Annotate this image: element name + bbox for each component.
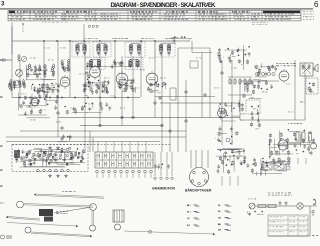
value label 26: [30, 119, 36, 122]
left margin mark 1: [0, 203, 5, 204]
value label 10: [118, 63, 124, 66]
title rule: [0, 8, 313, 10]
wire v21: [231, 60, 233, 145]
output transformer parts: [215, 126, 238, 144]
fuse F1: [258, 204, 266, 207]
junction J: [154, 102, 157, 105]
value label 1: [30, 57, 36, 60]
margin tick 1: [0, 59, 3, 61]
bus af: [160, 102, 240, 104]
if3 coupling parts: [81, 102, 111, 113]
ground lug 3: [48, 174, 52, 177]
bus agc: [192, 52, 212, 54]
tube V4 EM84: [218, 107, 227, 120]
trimmer C1: [21, 56, 26, 61]
junction B: [121, 116, 124, 119]
corner mark: [312, 235, 318, 236]
rectifier stubs: [290, 158, 306, 164]
if stage 1 parts: [82, 79, 109, 96]
IF can T1: [72, 42, 90, 57]
cord vertical: [92, 210, 93, 225]
tube V2 EF89: [116, 71, 128, 87]
legend column 1: [187, 205, 200, 227]
value label 38: [8, 85, 12, 88]
value label 36: [300, 101, 306, 104]
pulley P4: [90, 225, 96, 231]
wire output bottom: [240, 119, 305, 121]
rectifier parts: [269, 129, 316, 159]
value label 13: [149, 57, 155, 60]
pulley P2: [90, 204, 97, 211]
switch dark block: [14, 150, 20, 158]
band filter: [61, 59, 70, 73]
ratio detector ring: [226, 138, 230, 142]
junction I: [61, 127, 64, 130]
pulley P5: [115, 224, 121, 230]
din pins: [193, 171, 196, 174]
volume pot box: [170, 88, 176, 100]
value label 7: [79, 73, 84, 76]
detector chain parts: [255, 63, 278, 77]
junction L: [43, 84, 46, 87]
label above can T4: [141, 37, 154, 40]
value label 18: [244, 83, 250, 86]
label above can T3: [112, 37, 128, 40]
wire v7: [99, 44, 101, 126]
avc network: [218, 45, 251, 70]
value label 15: [196, 57, 202, 60]
bus tone 3: [6, 141, 160, 143]
IF can T4: [155, 42, 175, 57]
value label 21: [286, 83, 292, 86]
junction G: [221, 72, 224, 75]
switch dark bits: [26, 153, 28, 156]
table header dark cell NORMALT: [263, 11, 300, 13]
keyboard switch cells: [95, 152, 153, 168]
mains chain wire: [255, 205, 296, 207]
value label 14: [160, 77, 166, 80]
value label 37: [16, 69, 22, 72]
value label 27: [56, 121, 62, 124]
fuse table text: [270, 216, 306, 232]
svg-text:BÅNDOPTAGER: BÅNDOPTAGER: [185, 188, 212, 193]
cord run 3: [7, 223, 78, 228]
bus tone 1: [20, 130, 186, 132]
junction A: [99, 124, 102, 127]
value label 30: [134, 87, 140, 90]
switch feed wires: [90, 131, 93, 152]
bus anode junction dots: [19, 97, 21, 99]
tape network: [216, 148, 249, 174]
value label 4: [52, 83, 58, 86]
wire v22: [239, 81, 241, 120]
din socket: [190, 168, 209, 187]
wire v5: [69, 41, 71, 97]
value label 3: [36, 77, 42, 80]
left margin mark 2: [1, 235, 13, 239]
wire v14: [169, 103, 171, 152]
margin tick 4: [0, 169, 3, 171]
pulley P3: [25, 227, 31, 233]
grammofon pins: [154, 152, 156, 176]
wire v12: [154, 41, 156, 118]
aerial symbol: [311, 211, 315, 217]
IF can T2: [93, 42, 111, 57]
tube V5 EL84: [279, 69, 289, 83]
table header text 5: [198, 11, 218, 13]
bus top: [12, 40, 190, 42]
value label 12: [140, 69, 145, 72]
value label 6: [64, 69, 70, 72]
mains labels: [268, 193, 292, 196]
detector parts: [147, 81, 166, 93]
negative feedback parts: [308, 82, 315, 93]
drive drum: [39, 209, 53, 222]
table header text 1: [17, 11, 57, 13]
IF can T6: [125, 58, 143, 70]
oscillator coils: [8, 79, 25, 91]
if frequency label: [167, 36, 189, 43]
mains plug: [313, 199, 316, 205]
bus if label row: [165, 38, 192, 40]
fuse F2: [268, 204, 276, 207]
ground lug 5: [64, 174, 68, 177]
wire v3: [43, 41, 45, 97]
speaker: [314, 64, 319, 72]
margin note 3: [303, 15, 314, 18]
pointer rod: [34, 194, 104, 199]
keyboard contacts: [97, 154, 150, 167]
junction E: [185, 120, 188, 123]
terminal strip left: [37, 169, 40, 172]
value label 35: [288, 111, 294, 114]
wire can1 feed: [83, 24, 85, 42]
tone network: [58, 134, 72, 142]
value label 31: [110, 95, 114, 98]
drum label: [56, 211, 68, 214]
bus anode left: [12, 97, 140, 99]
value label 11: [128, 79, 132, 82]
tuning drum: [113, 210, 124, 222]
keyboard switch frame: [95, 152, 153, 168]
cap C95: [279, 201, 282, 206]
inter-can parts: [111, 59, 124, 69]
junction F: [204, 94, 207, 97]
value label 25: [120, 107, 125, 110]
value label 19: [256, 73, 261, 76]
mains bottom wire: [268, 235, 310, 237]
junction N: [159, 97, 162, 100]
value label 16: [214, 87, 219, 90]
pulley P1: [17, 201, 24, 208]
coil L1: [18, 54, 20, 62]
agc box: [190, 61, 198, 68]
bus loop top: [178, 47, 210, 49]
cord run 1: [24, 204, 93, 208]
output transformer: [300, 63, 313, 76]
value label 29: [86, 67, 92, 70]
value label 24: [88, 103, 94, 106]
value label 40: [60, 47, 66, 50]
value label 28: [98, 87, 102, 90]
value label 17: [231, 67, 237, 70]
voltage selector inner: [250, 204, 254, 208]
wire v9: [121, 56, 123, 126]
wire v15: [177, 48, 179, 152]
if2 grid parts: [85, 62, 91, 87]
wire v10: [132, 56, 134, 118]
table header blob 1: [9, 11, 15, 13]
if link wire: [86, 66, 130, 68]
voltage table grid: [8, 10, 301, 21]
wire v11: [140, 41, 142, 97]
pointer label: [62, 190, 76, 193]
tube V7 triode: [31, 96, 39, 108]
speaker terminals: [262, 163, 284, 170]
wire v19: [209, 48, 211, 118]
mixer parts: [31, 83, 60, 95]
chassis dashed line: [12, 144, 170, 146]
dial pointer arrow: [22, 23, 24, 33]
wire v17: [191, 41, 193, 53]
value label 32: [152, 91, 158, 94]
dial lamps: [297, 203, 303, 209]
wire from table: [11, 23, 13, 55]
keyboard terminals: [96, 170, 99, 173]
margin tick 5: [0, 185, 3, 187]
cord run 2: [6, 216, 40, 220]
wave switch box: [12, 145, 88, 172]
keyboard stubs: [96, 173, 98, 178]
wire v18: [201, 53, 203, 118]
table row 1 values: [10, 14, 294, 15]
speaker box: [306, 78, 318, 94]
value label 2: [48, 59, 54, 62]
tube V6 EZ80: [278, 138, 288, 152]
IF can T3: [125, 42, 145, 57]
output grid parts: [243, 80, 273, 99]
selector marks: [248, 198, 256, 201]
wire v4: [57, 41, 59, 137]
svg-text:6: 6: [314, 0, 319, 9]
bus tone 2: [6, 136, 186, 138]
junction K: [169, 130, 172, 133]
table note right: [252, 22, 268, 25]
table row 2 values: [11, 16, 290, 17]
table header text 2: [66, 11, 92, 13]
af chain wires: [228, 77, 279, 95]
margin tick 2: [0, 96, 3, 98]
if stage 2 parts: [118, 78, 135, 93]
wire v8: [114, 41, 116, 97]
grammofon pin parts: [154, 163, 170, 169]
wire v20: [221, 60, 223, 145]
legend column 2: [218, 205, 231, 231]
value label 39: [44, 47, 50, 50]
margin note 1: [303, 10, 314, 13]
wire v16: [185, 80, 187, 152]
rf input network: [26, 63, 56, 80]
tube V3 EABC80: [146, 71, 158, 87]
rectifier labels: [288, 123, 302, 124]
tape stubs: [222, 176, 238, 186]
label above can T1: [84, 37, 98, 40]
af resistor chain: [229, 78, 231, 85]
cord run 5: [124, 231, 215, 235]
tuning gang C2: [16, 69, 23, 76]
junction M: [185, 91, 188, 94]
cord run 4: [31, 232, 92, 237]
margin note 4: [303, 18, 314, 21]
ground lug 4: [56, 174, 60, 177]
antenna terminal: [0, 58, 12, 62]
mains switch: [247, 211, 263, 217]
el84 labels: [276, 63, 296, 66]
wire v23: [294, 60, 296, 120]
wire v24: [304, 63, 306, 120]
svg-text:3: 3: [1, 2, 5, 8]
sub-table refs: [42, 21, 68, 24]
tube V8 mixer triode: [60, 75, 70, 89]
fuse table: [268, 215, 308, 236]
value label 5: [21, 93, 27, 96]
table header text 3: [130, 11, 157, 13]
svg-text:DIAGRAM - SPÆNDINGER - SKALATR: DIAGRAM - SPÆNDINGER - SKALATRÆK: [111, 2, 217, 9]
value label 22: [40, 109, 46, 112]
cap C96: [285, 201, 288, 206]
value label 23: [70, 107, 76, 110]
wire v6: [84, 41, 86, 152]
mains wire right: [303, 206, 317, 236]
voltage selector: [249, 203, 255, 209]
cord eyelet: [149, 230, 152, 233]
junction C: [132, 116, 135, 119]
coupling parts: [64, 105, 88, 114]
table header text 6: [232, 11, 250, 13]
value label 33: [226, 105, 232, 108]
table row 3 values: [10, 19, 291, 20]
af preamp parts: [18, 93, 59, 118]
wire v2: [19, 60, 21, 97]
din feed wires: [190, 150, 192, 168]
svg-text:GRAMMOFON: GRAMMOFON: [152, 187, 176, 191]
alignment points: [88, 25, 98, 27]
table header text 4: [166, 11, 188, 13]
tube V1 ECH81: [90, 65, 101, 80]
speaker ring: [286, 166, 290, 170]
switch contacts left: [15, 147, 86, 168]
IF can T5: [85, 58, 105, 70]
wire v13: [161, 44, 163, 152]
output coupling box: [246, 100, 260, 114]
value label 9: [104, 77, 110, 80]
bus mid: [58, 117, 240, 119]
ground lug 1: [48, 146, 52, 149]
bus lower mid: [80, 125, 162, 127]
speaker wiring: [251, 156, 290, 176]
bus top junction dots: [43, 40, 45, 42]
ground lug 2: [56, 146, 60, 149]
junction H: [57, 112, 60, 115]
filter caps C90 C91: [296, 132, 312, 141]
value label 20: [262, 91, 267, 94]
keyboard feed stubs: [97, 142, 99, 153]
junction ring pair: [255, 72, 275, 75]
value label 8: [97, 59, 103, 62]
heater chain parts: [250, 105, 260, 129]
value label 34: [240, 113, 245, 116]
bus anode mid: [155, 96, 215, 98]
junction D: [161, 124, 164, 127]
cord drum to pulley: [54, 208, 89, 214]
mains filter circle: [311, 143, 317, 149]
margin tick 3: [0, 145, 3, 147]
wire v1: [11, 27, 13, 98]
margin note 2: [303, 13, 314, 16]
em84 parts: [219, 100, 244, 121]
